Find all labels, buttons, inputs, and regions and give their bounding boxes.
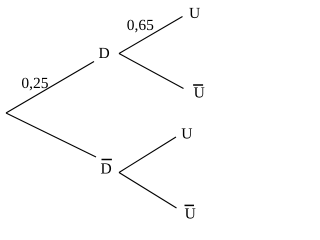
svg-text:U: U	[185, 206, 196, 221]
svg-text:0,65: 0,65	[127, 17, 154, 34]
wire D to U-bar	[119, 54, 184, 89]
wire D-bar to U-bar	[119, 173, 177, 209]
node U-bar (lower subtree)	[185, 205, 196, 222]
svg-text:U: U	[189, 5, 200, 22]
svg-text:D: D	[101, 161, 112, 178]
svg-text:D: D	[99, 45, 110, 62]
svg-text:U: U	[181, 126, 192, 143]
node U-bar (upper subtree)	[193, 84, 205, 101]
svg-text:U: U	[194, 84, 205, 101]
wire D-bar to U	[119, 137, 176, 173]
svg-text:0,25: 0,25	[21, 75, 48, 92]
wire root to D-bar	[6, 113, 96, 157]
wire root to D	[6, 62, 94, 114]
node D-bar	[101, 160, 112, 178]
wire D to U	[119, 17, 183, 54]
